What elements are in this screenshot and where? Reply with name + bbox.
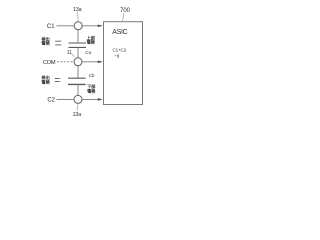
leader dash upper 2 [55,44,61,46]
wire C2 right [82,98,99,100]
wire Ca to circle2 [77,47,79,57]
svg-text:13a: 13a [73,112,82,118]
wire C1 right [82,25,99,27]
svg-text:C1: C1 [47,24,55,30]
svg-text:Cb: Cb [89,73,95,78]
arrowhead COM [98,61,103,64]
terminal circle top (C1 row) [74,22,82,30]
svg-text:Ca: Ca [85,50,91,55]
arrowhead C1 [98,25,103,28]
terminal circle bottom (C2 row) [74,95,82,103]
svg-text:電極: 電極 [87,39,96,46]
leader dash lower 2 [55,81,60,83]
leader dash lower 1 [55,78,60,80]
svg-text:÷6: ÷6 [114,53,120,58]
wire Cb to circle3 [77,84,79,95]
svg-text:11: 11 [67,50,72,56]
svg-text:電極: 電極 [41,78,50,85]
svg-text:COM: COM [43,60,56,66]
wire C2 left [57,98,74,100]
leader 13a bottom [76,104,79,111]
wire vertical circle1 to Ca [77,30,79,42]
svg-text:700: 700 [120,8,131,14]
wire C1 left [57,25,75,27]
capacitor Cb plate 1 [68,77,86,79]
leader 11 [72,54,75,56]
ASIC box U700 [104,22,143,105]
capacitor Ca plate 1 [69,42,87,44]
capacitor Ca plate 2 [69,46,87,48]
capacitor Cb plate 2 [68,83,86,85]
svg-text:C2: C2 [47,98,55,104]
svg-text:C1+C2: C1+C2 [112,47,126,52]
svg-text:電極: 電極 [87,87,96,94]
arrowhead C2 [98,98,103,101]
svg-text:電極: 電極 [41,40,50,47]
wire COM right [82,61,99,63]
leader dash upper 1 [55,40,61,42]
wire circle2 to Cb [77,66,79,78]
svg-text:ASIC: ASIC [112,29,127,36]
leader 13a top [77,12,80,22]
wire COM left dashed [57,61,74,63]
leader 700 [123,13,124,22]
terminal circle middle (COM row) [74,58,82,66]
